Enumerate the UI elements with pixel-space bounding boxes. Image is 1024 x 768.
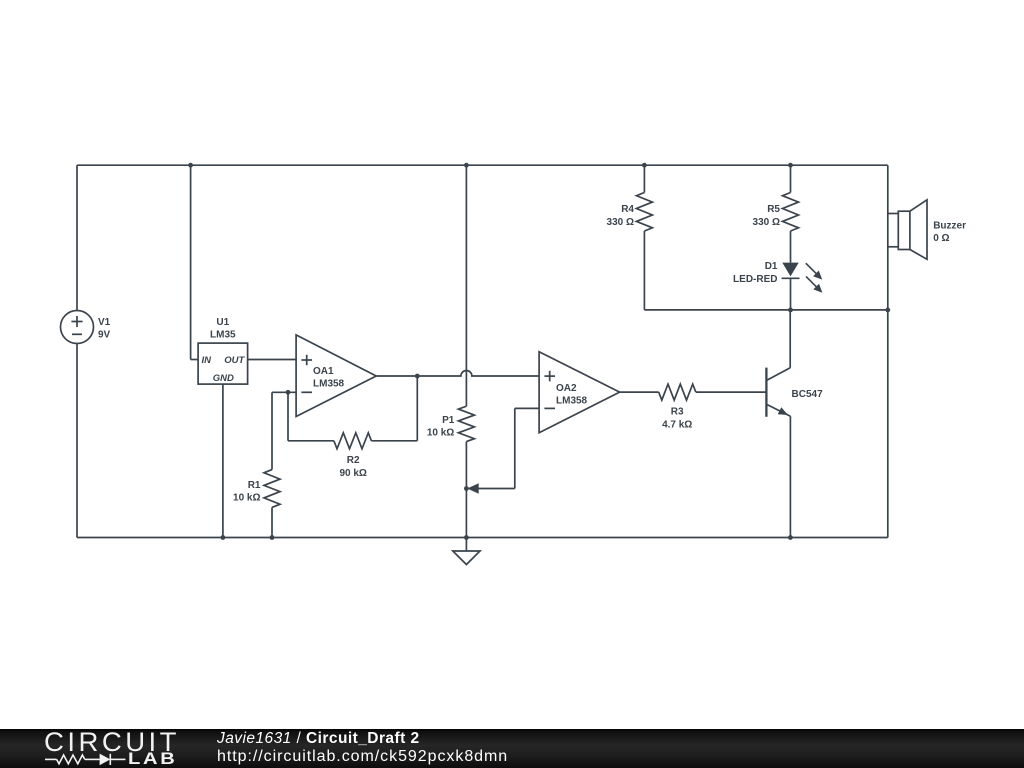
svg-text:0 Ω: 0 Ω <box>933 233 949 244</box>
svg-text:R5: R5 <box>767 204 780 215</box>
svg-text:OA1: OA1 <box>313 366 334 377</box>
svg-text:U1: U1 <box>216 317 229 328</box>
svg-text:90 kΩ: 90 kΩ <box>339 468 366 479</box>
svg-text:R3: R3 <box>671 407 684 418</box>
svg-text:330 Ω: 330 Ω <box>607 217 634 228</box>
svg-text:V1: V1 <box>98 317 111 328</box>
svg-text:R4: R4 <box>621 204 634 215</box>
svg-text:IN: IN <box>202 355 213 366</box>
svg-text:R2: R2 <box>347 455 360 466</box>
svg-text:LM35: LM35 <box>210 330 236 341</box>
svg-text:OUT: OUT <box>224 355 245 366</box>
svg-text:4.7 kΩ: 4.7 kΩ <box>662 419 692 430</box>
svg-text:D1: D1 <box>765 261 778 272</box>
svg-text:R1: R1 <box>248 480 261 491</box>
svg-text:BC547: BC547 <box>792 389 824 400</box>
svg-text:LM358: LM358 <box>313 378 345 389</box>
svg-text:LM358: LM358 <box>556 396 588 407</box>
svg-text:10 kΩ: 10 kΩ <box>233 493 260 504</box>
svg-text:LED-RED: LED-RED <box>733 274 777 285</box>
svg-text:GND: GND <box>213 373 234 384</box>
svg-text:10 kΩ: 10 kΩ <box>427 428 454 439</box>
svg-text:P1: P1 <box>442 415 455 426</box>
svg-text:Buzzer: Buzzer <box>933 221 966 232</box>
svg-text:OA2: OA2 <box>556 383 577 394</box>
svg-text:330 Ω: 330 Ω <box>753 217 780 228</box>
svg-text:9V: 9V <box>98 330 111 341</box>
